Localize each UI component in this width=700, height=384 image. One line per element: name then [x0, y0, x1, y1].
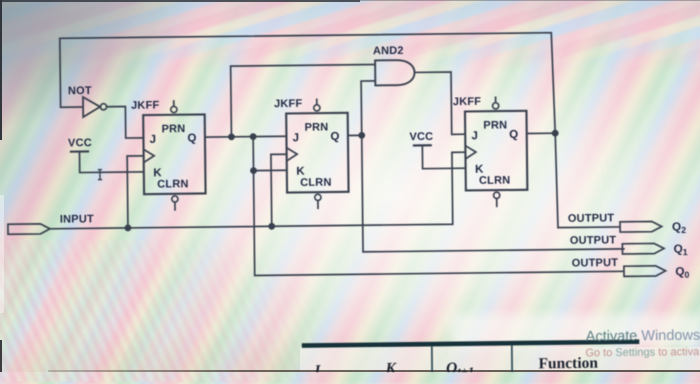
- junction on INPUT at FF2 clock: [268, 223, 275, 230]
- svg-text:CLRN: CLRN: [300, 177, 331, 189]
- svg-text:CLRN: CLRN: [479, 175, 510, 187]
- INPUT connector pin: [8, 224, 50, 234]
- wire: AND2 output to FF3 J: [415, 72, 466, 135]
- wire: branch up to AND2 input A: [231, 65, 376, 137]
- wire: FF3 Q to feedback node: [527, 132, 555, 134]
- clock edge triangle: [144, 149, 155, 162]
- wire: NOT output to FF1 J: [107, 106, 144, 138]
- PRN pin stub: [316, 99, 318, 105]
- clock edge triangle: [287, 148, 298, 161]
- svg-text:OUTPUT: OUTPUT: [570, 234, 617, 247]
- svg-text:NOT: NOT: [68, 85, 92, 97]
- svg-text:Q1: Q1: [673, 242, 687, 258]
- svg-text:PRN: PRN: [483, 119, 507, 131]
- table column separator 2: [511, 345, 513, 372]
- node: junction FF3.Q / feedback: [552, 130, 559, 137]
- svg-text:JKFF: JKFF: [453, 96, 482, 108]
- svg-text:Q0: Q0: [675, 264, 689, 280]
- CLRN pin stub: [494, 192, 500, 198]
- wire: branch down to FF2 K and OUTPUT Q0: [253, 132, 624, 275]
- svg-text:VCC: VCC: [409, 131, 433, 143]
- wire: to FF2 K: [254, 169, 287, 171]
- svg-text:Q: Q: [330, 131, 339, 143]
- wire: branch down to OUTPUT Q1 row: [362, 132, 625, 251]
- svg-text:OUTPUT: OUTPUT: [572, 257, 619, 270]
- wire: branch up to AND2 input B: [361, 81, 376, 135]
- PRN pin stub: [173, 100, 175, 106]
- photo edge artifacts: [0, 0, 360, 2]
- wire: FF2 clock drop to INPUT: [271, 154, 288, 226]
- svg-text:JKFF: JKFF: [131, 99, 160, 111]
- CLRN pin stub: [315, 194, 321, 200]
- flip-flop box: [286, 113, 348, 193]
- wire: top feedback from Q2 output to NOT input: [60, 32, 620, 233]
- flip-flop box: [143, 114, 205, 194]
- table column separator 1: [431, 346, 433, 373]
- svg-text:J: J: [150, 134, 157, 146]
- wire: FF2 Q out: [348, 134, 362, 136]
- svg-text:Q2: Q2: [672, 219, 686, 235]
- wire: INPUT line to FF3 clock: [49, 152, 466, 229]
- table top border / activate underline: [302, 342, 639, 346]
- svg-text:JKFF: JKFF: [274, 98, 303, 110]
- VCC symbol V2: [413, 144, 432, 146]
- OUTPUT pin Q2: [620, 221, 662, 232]
- OUTPUT pin Q1: [622, 243, 664, 254]
- VCC symbol V1: [70, 150, 89, 152]
- svg-text:OUTPUT: OUTPUT: [568, 212, 615, 225]
- wire: FF1 clock drop to INPUT: [127, 156, 144, 228]
- svg-text:Q: Q: [509, 129, 518, 141]
- node: junction FF1.Q / AND input: [228, 133, 235, 140]
- svg-text:J: J: [471, 130, 478, 142]
- wire: FF1 Q to FF2 J: [205, 135, 286, 138]
- junction on INPUT at FF1 clock: [125, 224, 132, 231]
- node: K branch junction: [250, 167, 257, 174]
- svg-text:Go to Settings to activa: Go to Settings to activa: [585, 346, 700, 359]
- wire tick marker: [98, 170, 102, 180]
- node: junction on FF1.Q wire: [250, 133, 257, 140]
- AND gate AND2: [375, 60, 415, 85]
- PRN pin stub: [495, 97, 497, 103]
- svg-text:J: J: [311, 362, 321, 372]
- CLRN pin stub: [172, 196, 178, 202]
- OUTPUT pin Q0: [624, 266, 666, 277]
- svg-text:VCC: VCC: [68, 137, 92, 149]
- svg-text:PRN: PRN: [162, 123, 186, 135]
- svg-text:Qt+1: Qt+1: [446, 360, 474, 372]
- svg-text:Activate Windows: Activate Windows: [586, 328, 700, 345]
- svg-text:K: K: [384, 360, 397, 372]
- svg-text:INPUT: INPUT: [60, 213, 94, 225]
- clock edge triangle: [465, 146, 476, 159]
- node: junction FF2.Q: [358, 132, 365, 139]
- svg-text:J: J: [293, 132, 300, 144]
- flip-flop box: [465, 111, 527, 191]
- svg-text:PRN: PRN: [305, 121, 329, 133]
- svg-text:AND2: AND2: [373, 45, 404, 57]
- svg-text:Q: Q: [187, 133, 196, 145]
- svg-text:CLRN: CLRN: [157, 178, 188, 190]
- NOT gate U1: [83, 97, 100, 117]
